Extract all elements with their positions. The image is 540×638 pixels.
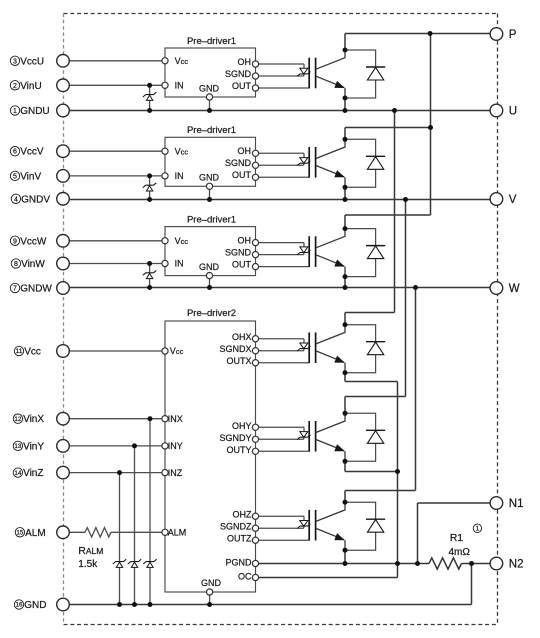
svg-text:SGND: SGND (225, 158, 252, 168)
svg-text:VinV: VinV (20, 171, 41, 182)
svg-text:11: 11 (16, 348, 24, 355)
svg-text:Vcc: Vcc (175, 236, 189, 246)
svg-text:SGNDY: SGNDY (219, 433, 251, 443)
svg-text:W: W (509, 283, 520, 295)
svg-text:OUTX: OUTX (226, 356, 251, 366)
svg-text:GNDU: GNDU (20, 106, 49, 117)
svg-text:SGNDX: SGNDX (219, 344, 251, 354)
svg-text:R1: R1 (450, 532, 464, 544)
svg-text:4: 4 (14, 196, 18, 203)
svg-text:9: 9 (13, 238, 17, 245)
svg-text:14: 14 (14, 470, 22, 477)
svg-text:OUT: OUT (232, 170, 252, 180)
svg-text:GND: GND (199, 173, 220, 183)
svg-text:GND: GND (24, 600, 46, 611)
svg-text:Vcc: Vcc (175, 146, 189, 156)
svg-text:OHX: OHX (232, 332, 252, 342)
svg-text:ALM: ALM (25, 528, 46, 539)
svg-text:VinZ: VinZ (23, 468, 43, 479)
svg-text:SGND: SGND (225, 247, 252, 257)
svg-text:SGND: SGND (225, 69, 252, 79)
svg-text:SGNDZ: SGNDZ (220, 522, 252, 532)
svg-text:IN: IN (175, 81, 184, 91)
svg-text:OUT: OUT (232, 259, 252, 269)
svg-text:RALM: RALM (78, 545, 103, 557)
svg-text:GNDV: GNDV (21, 194, 50, 205)
svg-text:5: 5 (13, 173, 17, 180)
svg-text:INY: INY (168, 441, 183, 451)
svg-text:VccV: VccV (20, 147, 44, 158)
svg-text:U: U (509, 106, 517, 118)
svg-text:OHZ: OHZ (233, 510, 253, 520)
svg-text:V: V (509, 194, 517, 206)
svg-text:15: 15 (16, 530, 24, 537)
svg-text:4mΩ: 4mΩ (449, 547, 471, 558)
svg-text:P: P (509, 29, 517, 41)
svg-text:GNDW: GNDW (20, 284, 52, 295)
svg-text:IN: IN (175, 171, 184, 181)
svg-text:OH: OH (238, 146, 252, 156)
svg-text:Pre–driver1: Pre–driver1 (187, 214, 236, 225)
svg-text:Vcc: Vcc (24, 347, 41, 358)
svg-text:OH: OH (238, 235, 252, 245)
svg-text:Pre–driver2: Pre–driver2 (187, 308, 236, 319)
svg-text:Vcc: Vcc (170, 346, 184, 356)
svg-text:OC: OC (238, 572, 252, 582)
svg-text:VccW: VccW (20, 236, 47, 247)
svg-text:OH: OH (238, 57, 252, 67)
svg-text:13: 13 (14, 443, 22, 450)
svg-text:8: 8 (14, 261, 18, 268)
svg-text:6: 6 (13, 149, 17, 156)
svg-text:OUTY: OUTY (226, 445, 251, 455)
svg-text:1: 1 (476, 526, 480, 533)
svg-text:OUTZ: OUTZ (227, 534, 252, 544)
svg-text:VccU: VccU (20, 56, 44, 67)
svg-text:VinU: VinU (20, 81, 42, 92)
svg-text:2: 2 (13, 83, 17, 90)
svg-text:OUT: OUT (232, 81, 252, 91)
svg-text:1: 1 (13, 108, 17, 115)
svg-text:N2: N2 (509, 559, 524, 571)
svg-text:INX: INX (168, 414, 183, 424)
svg-text:ALM: ALM (168, 528, 187, 538)
svg-text:3: 3 (13, 58, 17, 65)
svg-text:Pre–driver1: Pre–driver1 (187, 36, 236, 47)
svg-text:GND: GND (201, 578, 222, 588)
svg-text:GND: GND (199, 262, 220, 272)
svg-text:N1: N1 (509, 498, 524, 510)
svg-text:IN: IN (175, 259, 184, 269)
svg-text:VinY: VinY (23, 441, 44, 452)
svg-text:INZ: INZ (168, 468, 183, 478)
svg-text:GND: GND (199, 83, 220, 93)
svg-text:VinW: VinW (21, 259, 45, 270)
svg-text:12: 12 (14, 416, 22, 423)
svg-text:7: 7 (13, 286, 17, 293)
svg-text:OHY: OHY (232, 421, 252, 431)
svg-text:1.5k: 1.5k (78, 559, 98, 570)
svg-text:Vcc: Vcc (175, 56, 189, 66)
svg-text:PGND: PGND (225, 558, 252, 568)
svg-text:VinX: VinX (23, 414, 44, 425)
svg-text:16: 16 (16, 602, 24, 609)
svg-text:Pre–driver1: Pre–driver1 (187, 125, 236, 136)
